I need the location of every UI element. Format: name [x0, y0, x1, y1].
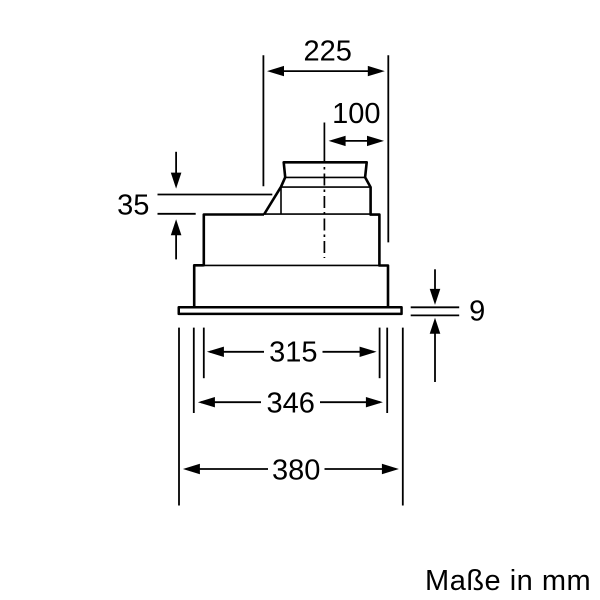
extension line right of 225 and 100	[387, 55, 389, 242]
upper box top face line	[264, 213, 371, 215]
collar hidden left edge	[280, 187, 282, 214]
extension line left of 225	[262, 55, 264, 186]
sloped gusset and duct collar outline	[264, 162, 388, 306]
9 up arrow	[434, 334, 436, 383]
346 extension lines	[193, 328, 195, 413]
9 down arrow	[434, 269, 436, 290]
35 down arrow	[175, 152, 177, 174]
315 extension lines	[203, 328, 205, 379]
collar rim bottom thin line	[285, 176, 365, 178]
svg-text:100: 100	[332, 98, 380, 130]
35 up arrow	[175, 235, 177, 259]
svg-text:380: 380	[272, 454, 320, 486]
hood bottom mounting plate	[179, 307, 402, 314]
dimension line 380	[186, 468, 268, 470]
hood upper box left side	[204, 215, 264, 267]
svg-text:315: 315	[269, 337, 317, 369]
35 bottom extension line	[158, 213, 196, 215]
9 plate edge extension lines	[411, 306, 460, 308]
collar base thin line	[281, 186, 371, 188]
hood lower box left side	[194, 265, 204, 306]
35 top extension line	[158, 194, 273, 196]
dimension line 315	[210, 351, 264, 353]
380 extension lines	[178, 328, 180, 506]
duct centerline	[323, 123, 325, 152]
lower box top face line	[204, 264, 379, 266]
svg-text:9: 9	[469, 296, 485, 328]
dimension line 346	[201, 401, 261, 403]
svg-text:225: 225	[304, 36, 352, 68]
svg-text:Maße in mm: Maße in mm	[425, 565, 591, 597]
svg-text:35: 35	[117, 189, 149, 221]
svg-text:346: 346	[267, 387, 315, 419]
dimension line 100 (double arrow)	[334, 140, 379, 142]
dimension line 225	[272, 70, 380, 72]
